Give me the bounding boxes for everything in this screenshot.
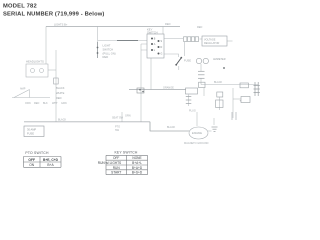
junction cluster box <box>137 88 144 93</box>
svg-text:B+A: B+A <box>47 163 54 167</box>
svg-text:SEAT SW: SEAT SW <box>112 117 124 120</box>
wire regulator stub <box>227 40 233 42</box>
svg-text:30 AMP: 30 AMP <box>27 128 36 132</box>
headlights box <box>26 64 48 77</box>
svg-text:LIGHT: LIGHT <box>103 44 111 48</box>
wire solenoid left pin <box>203 88 205 96</box>
svg-text:SWITCH: SWITCH <box>103 48 114 52</box>
wire key right to fuse <box>164 54 179 57</box>
wire junction riser <box>121 112 123 122</box>
svg-text:ORN: ORN <box>25 102 31 105</box>
wire left drop to headlights <box>45 27 47 65</box>
wire dark segment <box>117 40 138 42</box>
svg-text:RED: RED <box>165 22 171 26</box>
wire solenoid branch <box>233 98 241 100</box>
wire headlight to bus <box>48 69 56 71</box>
light switch label <box>103 44 116 60</box>
svg-text:SERIAL NUMBER (719,999 - Below: SERIAL NUMBER (719,999 - Below) <box>3 11 105 17</box>
wire fuse to lamps <box>178 66 180 70</box>
wire left bus vertical <box>55 50 57 122</box>
svg-text:SW: SW <box>115 129 120 132</box>
wire bottom rail step <box>150 122 189 131</box>
svg-text:HEADLIGHTS: HEADLIGHTS <box>26 60 44 64</box>
svg-text:BLACK: BLACK <box>58 119 67 122</box>
svg-text:GRN: GRN <box>125 115 131 118</box>
wire ground drop <box>213 118 215 125</box>
plug pins stack <box>198 71 205 78</box>
svg-text:RUN w/ LIGHTS: RUN w/ LIGHTS <box>98 161 121 165</box>
wire pins drop <box>200 79 202 85</box>
junction node dots <box>139 89 141 91</box>
svg-text:BLK: BLK <box>43 102 48 105</box>
svg-text:START: START <box>111 171 121 175</box>
svg-text:PLUG: PLUG <box>189 110 196 113</box>
svg-text:NONE: NONE <box>132 156 141 160</box>
wire color row <box>25 102 67 105</box>
regulator box <box>202 36 227 46</box>
svg-text:MAGNETO GROUND: MAGNETO GROUND <box>184 142 209 145</box>
svg-text:REGULATOR: REGULATOR <box>204 42 220 45</box>
svg-text:FUSE: FUSE <box>27 132 34 136</box>
engine oval <box>189 127 208 139</box>
PTO table text <box>28 158 58 167</box>
wire bottom ground rail <box>24 121 150 123</box>
light switch <box>97 42 99 58</box>
wire connector to regulator <box>200 38 203 40</box>
wire light-switch drop <box>97 27 99 43</box>
svg-text:RED: RED <box>34 102 39 105</box>
svg-text:(PULL ON): (PULL ON) <box>103 52 116 56</box>
PTO table grid <box>24 157 62 168</box>
wire mid-right rail <box>201 84 258 86</box>
svg-text:AMP: AMP <box>20 88 26 91</box>
battery branch box <box>241 97 250 103</box>
indicator lamp 2 <box>203 58 208 63</box>
wire lamp drop <box>200 64 202 71</box>
connector on left bus <box>54 78 59 84</box>
starter box <box>240 83 248 88</box>
solenoid end box <box>199 82 205 87</box>
svg-text:RUN: RUN <box>113 166 121 170</box>
svg-text:SWITCH: SWITCH <box>147 31 158 35</box>
wire gauge diagonal <box>14 90 30 98</box>
svg-text:WHITE: WHITE <box>56 91 65 95</box>
svg-text:D: D <box>161 46 163 49</box>
rectifier small box <box>217 92 223 97</box>
key switch box U1 <box>147 34 164 58</box>
regulator text <box>204 38 220 45</box>
svg-text:RED: RED <box>56 96 62 100</box>
svg-text:AMMETER: AMMETER <box>213 58 226 61</box>
ground symbol <box>212 127 218 131</box>
fuse holder box <box>24 126 44 137</box>
wire harness rail <box>129 89 186 91</box>
svg-text:ON: ON <box>29 163 35 167</box>
fuse F1 <box>175 57 182 66</box>
gauge labels <box>56 86 65 100</box>
svg-text:LIGHTS B+: LIGHTS B+ <box>54 22 68 26</box>
svg-text:GRN: GRN <box>61 102 67 105</box>
KEY table grid <box>106 155 148 174</box>
wire connector drop to fuse <box>184 42 186 56</box>
wire plug pins vertical <box>188 95 190 107</box>
svg-text:G: G <box>161 53 163 56</box>
svg-text:MODEL 782: MODEL 782 <box>3 3 37 9</box>
node dot right <box>223 67 225 69</box>
svg-text:B+E, C+D: B+E, C+D <box>43 158 59 162</box>
wire key right to connector <box>164 38 183 40</box>
wire left gauge line <box>12 97 50 99</box>
key switch terminals <box>151 38 160 55</box>
plug pins dashes <box>186 97 192 104</box>
svg-text:B+A+L: B+A+L <box>132 161 142 165</box>
indicator lamp 1 <box>196 58 201 63</box>
wire rectifier vertical <box>219 97 221 110</box>
svg-text:OFF: OFF <box>113 156 119 160</box>
junction label below <box>115 126 120 132</box>
KEY table text <box>98 156 143 174</box>
svg-text:RED: RED <box>103 55 109 59</box>
key terminal letters <box>154 38 163 56</box>
wire gauge vertical <box>29 90 31 98</box>
svg-text:BLACK: BLACK <box>167 126 176 129</box>
svg-text:RED: RED <box>197 26 202 29</box>
svg-text:ENGINE: ENGINE <box>192 131 202 135</box>
wire solenoid vertical <box>232 88 234 118</box>
battery plates <box>254 82 260 96</box>
plug box <box>186 88 198 94</box>
svg-text:B+A+D: B+A+D <box>132 166 143 170</box>
svg-text:BLACK: BLACK <box>214 81 223 84</box>
solenoid pair marks <box>232 112 236 120</box>
rectifier body <box>216 100 223 108</box>
svg-text:B+S+D: B+S+D <box>132 171 143 175</box>
connector strip pins <box>184 37 199 42</box>
key switch label <box>147 28 158 35</box>
wire main rails overdraw <box>24 27 189 132</box>
svg-text:PTO SWITCH: PTO SWITCH <box>25 151 49 155</box>
wire key-switch feed <box>162 27 164 35</box>
wire accessory vertical <box>140 44 142 122</box>
wire light switch to key switch <box>98 40 147 42</box>
fuse holder text <box>27 128 36 136</box>
wire engine ground link <box>208 130 212 132</box>
wire engine feed <box>196 112 198 126</box>
wire key left terminals <box>141 44 147 50</box>
svg-text:BLACK: BLACK <box>56 86 65 90</box>
svg-text:KEY SWITCH: KEY SWITCH <box>114 151 137 155</box>
wire key bottom drop <box>150 58 152 90</box>
wire top rail <box>46 26 180 28</box>
svg-text:VOLTAGE: VOLTAGE <box>204 38 216 41</box>
svg-text:ORANGE: ORANGE <box>163 87 174 90</box>
svg-text:FUSE: FUSE <box>184 59 191 63</box>
svg-text:OFF: OFF <box>28 158 35 162</box>
svg-text:WHT: WHT <box>52 102 58 105</box>
